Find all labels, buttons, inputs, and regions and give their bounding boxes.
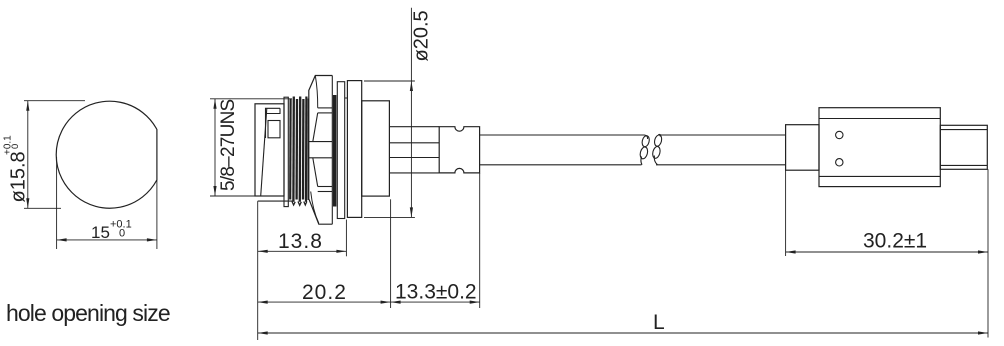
dimension 30.2 arrow left [786,250,796,253]
dimension 30.2 arrow right [978,250,988,253]
dimension d20.5 arrow down [410,207,413,217]
dimension 15 extension line left [56,157,58,249]
dimension 15 arrow right [147,238,157,241]
extension line 30.2 left [785,170,787,256]
dimension d15.8 line [27,101,29,209]
front plug body [255,104,284,196]
front plug key slot upper [266,108,281,138]
hex nut right edge [331,76,333,225]
usb body line top [819,118,940,120]
dimension 13.8 arrow right [336,250,346,253]
cable right segment bottom [656,164,786,166]
usb boot [786,125,819,171]
dimension L arrow right [978,331,988,334]
extension line 13.8 right [345,220,347,257]
dimension 15 arrow left [57,238,67,241]
dimension d20.5 arrow up [410,81,413,91]
dimension d20.5 line [410,8,412,218]
hex nut face line upper [309,141,333,143]
dimension L arrow left [258,331,268,334]
rear body [362,101,390,196]
svg-text:15: 15 [91,223,110,242]
cable left segment top [480,134,645,136]
gasket (black seal) [333,95,337,207]
crimp block [439,127,479,173]
dimension 13.8 arrow left [258,250,268,253]
dimension 15 extension line right [156,180,158,249]
dimension 15 line [57,239,157,241]
dimension 13.3 line [391,301,480,303]
hex nut lower facet line b [318,191,333,193]
dimension 13.3 arrow right [470,301,480,304]
dimension d15.8 arrow up [26,101,29,111]
usb body hole lower [836,159,843,166]
wire 3 [389,157,439,159]
usb body [819,108,940,187]
dimension 5/8-27UNS extension line bottom [210,195,281,197]
cable right segment top [658,134,786,136]
dimension 5/8-27UNS extension line top [210,98,292,100]
front plug key slot lower [268,121,280,138]
thread band [290,97,308,206]
dimension d15.8 label [3,135,30,203]
dimension 20.2 arrow left [258,301,268,304]
hex nut chamfer curve lower [311,192,319,224]
svg-text:0: 0 [119,228,125,240]
dimension 5/8-27UNS line [214,99,216,196]
front plug bottom lip [258,200,294,202]
svg-text:20.2: 20.2 [302,281,347,304]
washer tie line [345,97,348,99]
dimension 5/8-27UNS arrow up [213,99,216,109]
usb tip [940,125,987,169]
svg-text:hole opening size: hole opening size [6,300,170,326]
svg-text:ø20.5: ø20.5 [411,10,433,61]
wire 2 [389,142,439,144]
washer [337,82,344,219]
dimension 20.2 arrow mid-left [381,301,391,304]
hex nut lower diagonal [313,158,318,187]
hex nut chamfer curve upper [315,76,317,108]
svg-text:ø15.8: ø15.8 [8,151,30,202]
dimension 13.3 arrow mid-right [391,301,401,304]
svg-text:L: L [653,311,665,334]
extension line 13.3 right [479,173,481,308]
svg-text:13.8: 13.8 [278,230,323,253]
usb body hole upper [836,131,843,138]
hole circle with flat [56,101,157,208]
wire 1 [389,126,439,128]
extension line left master [257,201,259,340]
panel plate [347,81,361,218]
extension line right master [987,169,989,337]
extension line 20.2 right [390,199,392,308]
dimension d20.5 ext line top [364,80,415,82]
dimension 20.2 line [258,301,391,303]
svg-text:5/8–27UNS: 5/8–27UNS [218,99,239,191]
dimension d15.8 extension line bottom [24,207,61,209]
dimension d15.8 arrow down [26,198,29,208]
dimension 15 label [91,219,132,243]
cable left segment bottom [480,164,642,166]
hex nut upper facet line b [318,112,333,114]
dimension 13.8 line [258,250,347,252]
hex nut lower facet line a [318,186,333,188]
hex nut outline [309,76,333,225]
dimension d15.8 extension line top [24,100,85,102]
dimension d20.5 ext line bottom [364,216,415,218]
dimension 30.2 line [786,251,988,253]
hex nut upper facet line a [318,107,333,109]
usb tip line bottom [940,164,987,166]
usb body line bottom [819,175,940,177]
svg-text:13.3±0.2: 13.3±0.2 [395,281,477,304]
wire 4 [389,172,439,174]
cable break right [652,134,663,164]
svg-text:0: 0 [10,144,21,149]
collar ring [284,97,288,206]
svg-text:30.2±1: 30.2±1 [863,230,927,253]
front plug taper line [261,108,267,196]
cable break left [639,135,650,165]
hex nut upper diagonal [313,113,318,142]
dimension L line [258,332,988,334]
usb tip line top [940,129,987,131]
dimension 5/8-27UNS arrow down [213,186,216,196]
hex nut face line lower [309,157,333,159]
